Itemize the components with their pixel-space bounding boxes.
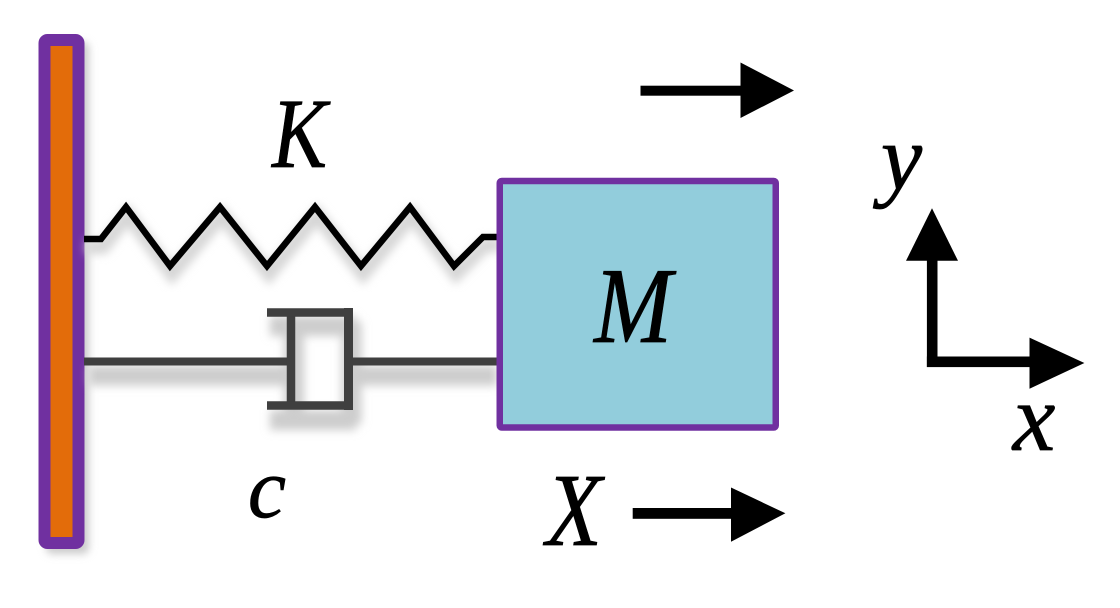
svg-text:c: c xyxy=(248,440,286,536)
damper left rod xyxy=(84,358,291,366)
label y xyxy=(873,107,923,210)
damper cylinder right wall xyxy=(344,308,353,410)
damper shadow xyxy=(89,322,497,424)
damper piston plate xyxy=(287,313,296,405)
velocity arrow (top) xyxy=(641,63,795,119)
wall shadow xyxy=(46,42,89,554)
damper cylinder bottom xyxy=(267,401,353,410)
y-axis arrow xyxy=(906,208,958,367)
svg-text:M: M xyxy=(592,247,676,366)
svg-text:X: X xyxy=(542,453,605,568)
svg-text:y: y xyxy=(873,107,923,210)
damper right rod xyxy=(353,358,498,366)
displacement arrow X xyxy=(633,488,786,542)
damper c (dashpot) xyxy=(84,308,498,410)
x-axis arrow xyxy=(927,338,1085,389)
svg-text:K: K xyxy=(270,78,330,189)
spring K xyxy=(84,207,498,266)
wall (fixed support) xyxy=(45,40,79,543)
spring shadow xyxy=(86,215,500,274)
mass M block xyxy=(500,181,776,428)
svg-text:x: x xyxy=(1011,364,1056,471)
damper cylinder top xyxy=(267,308,353,317)
